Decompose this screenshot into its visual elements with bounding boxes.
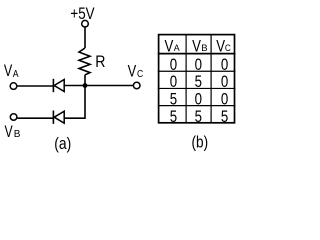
svg-text:0: 0: [195, 56, 202, 74]
diode D2 triangle: [54, 111, 64, 123]
svg-text:5: 5: [221, 108, 228, 126]
svg-text:0: 0: [221, 56, 228, 74]
svg-text:A: A: [13, 69, 19, 80]
table header separator: [158, 53, 236, 55]
diode D1 triangle: [54, 80, 64, 92]
wire VB to diode D2: [17, 117, 53, 119]
svg-text:5: 5: [170, 108, 177, 126]
wire node to VC: [85, 85, 134, 87]
table header VB: [192, 36, 208, 55]
truth table outer border: [159, 35, 235, 123]
svg-text:C: C: [225, 43, 231, 54]
svg-text:V: V: [5, 122, 14, 141]
table row line 3: [158, 105, 236, 107]
svg-text:5: 5: [195, 73, 202, 91]
input VB label: [5, 122, 21, 141]
svg-text:V: V: [192, 36, 201, 55]
table column line 1: [185, 35, 187, 123]
svg-text:C: C: [137, 69, 143, 80]
table header VC: [216, 36, 231, 55]
wire supply to resistor: [84, 27, 86, 48]
output VC label: [128, 62, 144, 81]
input VA terminal: [10, 83, 17, 90]
svg-text:B: B: [201, 43, 207, 54]
+5V terminal: [82, 20, 89, 27]
svg-text:+5V: +5V: [70, 5, 94, 23]
diode D2 cathode bar: [52, 111, 54, 124]
svg-text:5: 5: [170, 91, 177, 109]
input VA label: [4, 61, 19, 80]
table row line 2: [158, 87, 236, 89]
svg-text:R: R: [95, 52, 105, 71]
svg-text:0: 0: [195, 91, 202, 109]
wire resistor to node: [84, 75, 86, 86]
svg-text:V: V: [4, 61, 13, 80]
svg-text:0: 0: [221, 91, 228, 109]
svg-text:A: A: [174, 43, 181, 54]
svg-text:0: 0: [170, 56, 177, 74]
table row line 1: [158, 70, 236, 72]
svg-text:0: 0: [170, 73, 177, 91]
resistor R: [79, 48, 90, 75]
svg-text:V: V: [128, 62, 137, 81]
svg-text:(a): (a): [54, 135, 71, 153]
svg-text:0: 0: [221, 73, 228, 91]
table column line 2: [210, 35, 212, 123]
svg-text:5: 5: [195, 108, 202, 126]
svg-text:V: V: [165, 36, 174, 55]
table header VA: [165, 36, 181, 55]
table data cells: [170, 56, 229, 126]
svg-text:(b): (b): [192, 133, 209, 151]
svg-text:B: B: [14, 129, 21, 140]
wire VA to diode D1: [17, 85, 53, 87]
diode D1 cathode bar: [52, 79, 54, 92]
wire D2 to node corner: [64, 86, 85, 119]
input VB terminal: [10, 114, 17, 121]
wire D1 to node: [64, 85, 85, 87]
output VC terminal: [133, 82, 140, 89]
node junction dot: [83, 83, 88, 88]
